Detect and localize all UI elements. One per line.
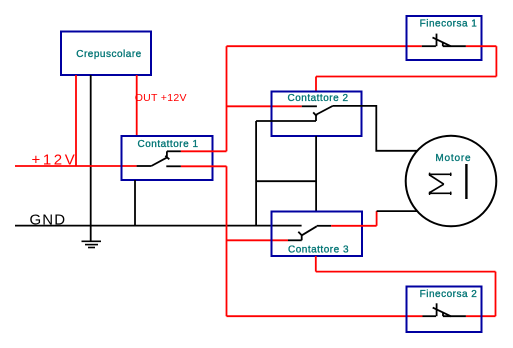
wire red: K3 output to motor lower [331, 225, 376, 227]
svg-text:Finecorsa 2: Finecorsa 2 [420, 289, 478, 300]
motor terminal bar [465, 164, 467, 199]
switch K2 contacts [256, 106, 332, 121]
wire red: K3 coil bottom pin down [315, 256, 317, 272]
svg-text:OUT +12V: OUT +12V [135, 92, 187, 104]
wire black: rung between risers [256, 180, 316, 182]
motor M glyph rotated [429, 173, 452, 195]
wire black: GND riser for K2 [255, 121, 257, 226]
wire red: branch to Contattore 2 input [227, 105, 302, 107]
wire red: bottom run to Finecorsa 2 [227, 315, 423, 317]
wire red: top run to Finecorsa 1 [227, 45, 422, 47]
wire red: Finecorsa 2 right pin [466, 315, 496, 317]
wire black: GND rail into Contattore 3 [15, 225, 302, 227]
wire red: +12V rail [15, 165, 137, 167]
box Finecorsa 2 S2 [407, 287, 482, 333]
wire red: Finecorsa 1 right pin [466, 45, 497, 47]
svg-text:Crepuscolare: Crepuscolare [76, 49, 141, 60]
wire black: crepuscolare middle pin down to GND line [90, 75, 92, 226]
wire black: vertical K2 box to K3 box [315, 136, 317, 212]
wire red: riser up [226, 46, 228, 151]
svg-text:Finecorsa 1: Finecorsa 1 [420, 19, 478, 30]
switch K3 contacts [288, 226, 331, 241]
wire black: motor lower lead [377, 210, 418, 212]
wire red: down right edge [495, 46, 497, 76]
ground symbol [82, 226, 102, 248]
svg-text:Motore: Motore [435, 153, 471, 164]
box Contattore 2 K2 [272, 92, 362, 137]
box Finecorsa 1 S1 [407, 16, 482, 60]
wire red: up to motor wire level [376, 211, 378, 226]
box Contattore 1 K1 [122, 136, 213, 180]
switch K1 contacts [137, 151, 181, 166]
wire red: run right under motor [316, 271, 496, 273]
wire red: K1 upper output to riser [181, 150, 227, 152]
wire red: branch to Contattore 3 input [227, 239, 289, 241]
wire red: down left riser [226, 166, 228, 316]
box Crepuscolare U1 [61, 32, 151, 76]
motor M1 circle [406, 136, 497, 227]
box Contattore 3 K3 [272, 212, 363, 257]
svg-text:Contattore 1: Contattore 1 [137, 139, 198, 150]
svg-text:Contattore 3: Contattore 3 [288, 244, 349, 255]
svg-text:Contattore 2: Contattore 2 [287, 93, 348, 104]
switch S1 limit contacts [422, 34, 466, 47]
wire red: down right edge to Finecorsa 2 [495, 272, 497, 317]
wire black: K2 output to motor upper [333, 106, 418, 151]
wire black: Contattore 1 bottom pin to GND [134, 180, 136, 226]
wire red: K1 lower output right [181, 165, 227, 167]
wire red: crepuscolare left pin down to +12V rail [75, 75, 77, 166]
switch S2 limit contacts [423, 303, 466, 316]
wire red: back to coil riser [316, 76, 496, 78]
wire red: crepuscolare OUT pin down to Contattore 1 [136, 75, 138, 136]
wire red: down to Contattore 2 coil [315, 77, 317, 92]
